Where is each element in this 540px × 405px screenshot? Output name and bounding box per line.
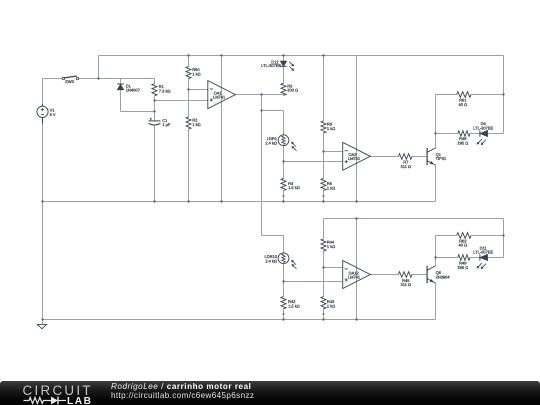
svg-text:311 Ω: 311 Ω — [401, 282, 411, 287]
svg-text:2.4 kΩ: 2.4 kΩ — [265, 258, 277, 263]
svg-text:295 Ω: 295 Ω — [457, 265, 468, 270]
svg-text:LM741: LM741 — [213, 95, 226, 100]
svg-text:40 Ω: 40 Ω — [459, 102, 468, 107]
svg-text:LTL-307EE: LTL-307EE — [473, 126, 493, 131]
svg-text:LM741: LM741 — [348, 156, 361, 161]
svg-text:1 kΩ: 1 kΩ — [327, 185, 335, 190]
svg-text:295 Ω: 295 Ω — [457, 141, 468, 146]
svg-text:1 kΩ: 1 kΩ — [192, 122, 200, 127]
svg-text:1 kΩ: 1 kΩ — [327, 244, 335, 249]
svg-text:7.3 kΩ: 7.3 kΩ — [159, 88, 171, 93]
svg-text:40 Ω: 40 Ω — [459, 243, 468, 248]
svg-text:1 µF: 1 µF — [162, 122, 171, 127]
svg-text:LTL-307EE: LTL-307EE — [261, 63, 281, 68]
svg-text:1N4007: 1N4007 — [126, 88, 141, 93]
svg-text:SW3: SW3 — [65, 79, 74, 84]
svg-text:2N3904: 2N3904 — [436, 274, 451, 279]
svg-text:200 Ω: 200 Ω — [287, 88, 298, 93]
svg-text:311 Ω: 311 Ω — [401, 164, 411, 169]
svg-text:1 kΩ: 1 kΩ — [192, 71, 200, 76]
svg-text:LM741: LM741 — [348, 274, 361, 279]
svg-text:6 V: 6 V — [50, 112, 56, 117]
svg-text:LTL-307EE: LTL-307EE — [473, 250, 493, 255]
svg-text:1.5 kΩ: 1.5 kΩ — [288, 185, 300, 190]
svg-text:2.4 kΩ: 2.4 kΩ — [265, 140, 277, 145]
svg-text:1 kΩ: 1 kΩ — [327, 126, 335, 131]
svg-text:TIP31: TIP31 — [436, 156, 447, 161]
svg-text:1 kΩ: 1 kΩ — [327, 304, 335, 309]
svg-text:1.5 kΩ: 1.5 kΩ — [288, 304, 300, 309]
